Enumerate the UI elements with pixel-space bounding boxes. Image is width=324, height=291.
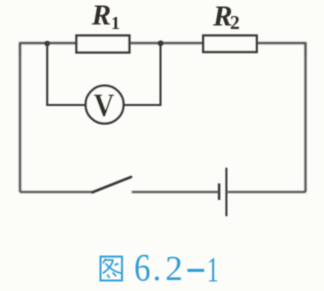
- caption text 6: [134, 246, 150, 289]
- wire: bottom-left (corner to switch hinge): [20, 191, 94, 193]
- wire: top-right segment (R2 to top-right corner): [256, 43, 306, 55]
- battery BT1 positive plate (long): [225, 168, 227, 217]
- voltmeter U1 letter V: [94, 86, 115, 123]
- svg-text:2: 2: [165, 249, 183, 288]
- switch S1 lever: [93, 177, 132, 192]
- node A (left junction dot): [44, 41, 50, 47]
- svg-text:V: V: [94, 86, 115, 123]
- svg-text:6: 6: [134, 246, 150, 289]
- caption: 图 6.2-1: [101, 246, 219, 290]
- wire: right vertical: [304, 44, 306, 192]
- node B (right junction dot): [158, 40, 164, 46]
- wire: battery plus to bottom-right corner: [227, 191, 305, 193]
- wire: voltmeter branch left (junction down, right to meter): [47, 43, 86, 105]
- svg-text:1: 1: [111, 13, 120, 33]
- resistor R2: [203, 36, 257, 53]
- wire: left vertical: [19, 44, 21, 192]
- wire: voltmeter branch right (meter to junction): [124, 43, 161, 105]
- caption dash: [187, 269, 204, 272]
- battery BT1 negative plate (short): [218, 183, 221, 200]
- caption glyph 图 (drawn strokes): [101, 257, 123, 281]
- caption text 1: [207, 250, 219, 290]
- wire: top-left segment (left corner to R1): [20, 43, 76, 55]
- wire: top-middle segment (R1 to R2): [129, 42, 204, 44]
- svg-text:1: 1: [207, 250, 219, 290]
- wire: switch contact to battery minus: [132, 191, 218, 193]
- svg-text:R: R: [91, 0, 111, 31]
- caption period: [155, 277, 159, 281]
- svg-text:2: 2: [230, 13, 240, 34]
- voltmeter U1 circle: [86, 86, 124, 124]
- resistor R1: [76, 36, 129, 53]
